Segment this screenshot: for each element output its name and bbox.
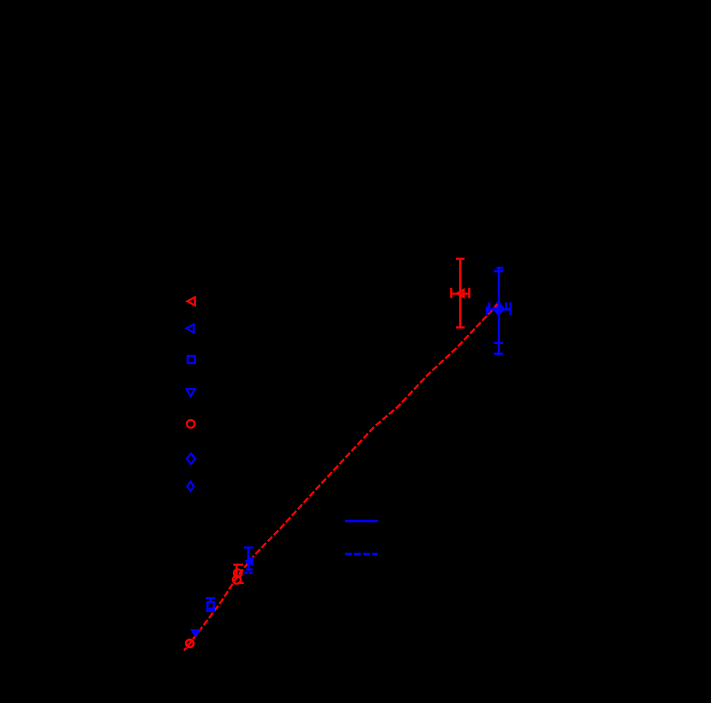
- data: blue triangle-down: [192, 630, 199, 635]
- data: red circle bottom: [186, 640, 194, 648]
- red dashed model curve: [184, 304, 499, 651]
- legend line: blue solid: [345, 520, 378, 523]
- legend marker: blue square: [188, 356, 195, 363]
- legend marker: blue triangle-left: [186, 324, 193, 332]
- data: blue square with y error bar: [206, 598, 215, 611]
- legend line: blue dashed: [345, 553, 378, 556]
- data: blue point with error bar and dashes: [244, 548, 253, 574]
- legend marker: blue triangle-down: [187, 389, 195, 396]
- legend marker: red triangle-left: [187, 297, 195, 305]
- legend marker: blue diamond: [187, 453, 196, 464]
- legend marker: blue thin diamond: [187, 482, 193, 491]
- data: red circles pair with error bar: [233, 565, 244, 584]
- red dash visible across blue diamond: [495, 304, 498, 307]
- data: big red point with x/y error bars: [451, 259, 469, 328]
- data: big blue point with double error bars: [487, 268, 511, 354]
- legend marker: red circle: [187, 420, 195, 428]
